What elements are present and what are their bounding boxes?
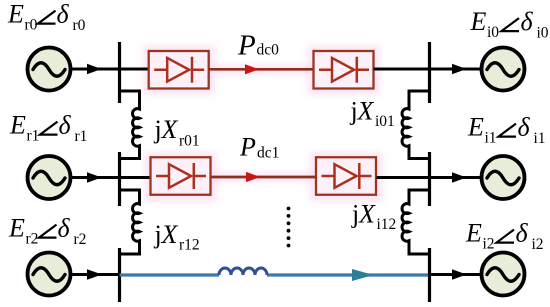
- svg-text:i1: i1: [534, 130, 546, 147]
- svg-text:δ: δ: [57, 0, 70, 29]
- label jX_r01: [154, 115, 200, 150]
- wire: INV0 to source i0: [374, 68, 482, 71]
- converter INV1: [316, 157, 376, 195]
- svg-text:δ: δ: [516, 219, 529, 248]
- svg-text:j: j: [350, 97, 358, 126]
- svg-text:r1: r1: [75, 128, 88, 145]
- svg-text:E: E: [465, 219, 482, 248]
- bus i1: [428, 152, 431, 206]
- svg-text:r2: r2: [74, 231, 87, 248]
- converter REC0: [149, 51, 209, 89]
- arrow on wire r0: [87, 64, 102, 74]
- AC source G_r1: [28, 156, 71, 199]
- svg-text:X: X: [358, 200, 376, 229]
- label E_i0 angle delta_i0: [470, 7, 549, 42]
- wire: source r1 to bus r1: [71, 176, 151, 179]
- arrow on wire r2: [87, 269, 102, 279]
- wire: source r0 to bus r0: [71, 68, 150, 71]
- AC source G_i2: [482, 253, 525, 296]
- svg-text:j: j: [351, 200, 359, 229]
- svg-text:E: E: [9, 111, 26, 140]
- svg-text:δ: δ: [59, 111, 72, 140]
- svg-text:r0: r0: [25, 17, 38, 34]
- svg-text:δ: δ: [58, 214, 71, 243]
- reactance jX_i01 between bus i0 and bus i1: [402, 91, 429, 159]
- label jX_i01: [350, 97, 395, 131]
- arrow on DC line 0: [245, 64, 259, 74]
- wire: INV1 to source i1: [377, 176, 482, 179]
- label E_r2 angle delta_r2: [8, 214, 86, 249]
- svg-text:j: j: [154, 220, 162, 249]
- svg-text:j: j: [154, 115, 162, 144]
- svg-text:r0: r0: [73, 17, 86, 34]
- arrow on tie line (blue): [352, 269, 374, 281]
- AC source G_r0: [28, 48, 71, 91]
- bus r1: [118, 152, 121, 206]
- svg-text:dc1: dc1: [257, 145, 279, 162]
- svg-text:X: X: [161, 220, 179, 249]
- wire: source r2 to bus r2: [71, 273, 120, 276]
- svg-text:r12: r12: [179, 237, 200, 254]
- bus i2: [428, 248, 431, 302]
- arrow on DC line 1: [246, 172, 261, 182]
- label jX_i12: [351, 200, 396, 234]
- AC source G_i1: [482, 156, 525, 199]
- arrow on wire i0: [452, 64, 467, 74]
- svg-text:X: X: [357, 97, 375, 126]
- svg-text:i2: i2: [483, 236, 495, 253]
- svg-text:r01: r01: [179, 133, 200, 150]
- glow around converter REC1: [144, 152, 217, 202]
- svg-text:i12: i12: [377, 216, 397, 233]
- label E_r0 angle delta_r0: [7, 0, 86, 34]
- inductor on tie line (blue): [219, 268, 267, 275]
- svg-text:i2: i2: [532, 236, 544, 253]
- svg-text:i01: i01: [375, 113, 395, 130]
- svg-text:δ: δ: [518, 113, 531, 142]
- wire: bus i2 to source i2: [430, 273, 482, 276]
- svg-text:δ: δ: [521, 7, 534, 36]
- glow around converter REC0: [143, 45, 215, 95]
- converter INV0: [314, 51, 374, 89]
- svg-text:i0: i0: [537, 25, 549, 42]
- arrow on wire r1: [87, 172, 102, 182]
- svg-text:i1: i1: [485, 130, 497, 147]
- DC line P_dc1: [211, 176, 316, 179]
- reactance jX_i12 between bus i1 and bus i2: [402, 190, 429, 254]
- label jX_r12: [154, 220, 200, 254]
- arrow on wire i2: [452, 269, 467, 279]
- AC source G_i0: [482, 48, 525, 91]
- label P_dc1: [239, 132, 279, 161]
- glow around DC line 0: [208, 64, 314, 75]
- AC source G_r2: [28, 253, 71, 296]
- DC line P_dc0: [209, 68, 314, 71]
- svg-text:P: P: [239, 132, 256, 161]
- label E_i1 angle delta_i1: [467, 113, 546, 148]
- ellipsis dots (more lines): [287, 207, 291, 248]
- svg-text:E: E: [8, 214, 25, 243]
- svg-text:dc0: dc0: [257, 42, 280, 59]
- svg-text:E: E: [7, 0, 24, 29]
- label E_r1 angle delta_r1: [9, 111, 87, 146]
- svg-text:E: E: [470, 7, 487, 36]
- svg-text:P: P: [237, 30, 256, 62]
- svg-text:X: X: [161, 115, 179, 144]
- bus i0: [428, 42, 431, 103]
- glow around converter INV0: [308, 45, 380, 95]
- label P_dc0: [237, 30, 279, 62]
- svg-text:r2: r2: [26, 231, 39, 248]
- glow around DC line 1: [211, 172, 315, 183]
- glow around converter INV1: [310, 152, 383, 202]
- svg-text:i0: i0: [487, 24, 499, 41]
- arrow on wire i1: [452, 172, 467, 182]
- bus r0: [118, 42, 121, 103]
- reactance jX_r12 between bus r1 and bus r2: [120, 190, 140, 254]
- svg-text:r1: r1: [27, 128, 40, 145]
- AC tie line r2-i2 (blue): [120, 273, 430, 276]
- svg-text:E: E: [467, 113, 484, 142]
- bus r2: [118, 248, 121, 302]
- reactance jX_r01 between bus r0 and bus r1: [120, 91, 140, 159]
- converter REC1: [151, 157, 211, 195]
- label E_i2 angle delta_i2: [465, 219, 544, 254]
